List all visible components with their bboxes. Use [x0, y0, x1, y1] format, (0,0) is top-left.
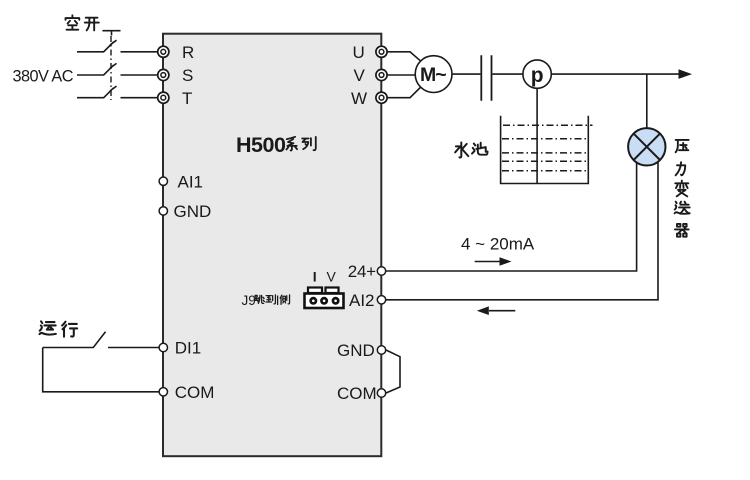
- terminal DI1: [159, 339, 201, 358]
- svg-text:R: R: [182, 43, 194, 62]
- svg-text:4 ~ 20mA: 4 ~ 20mA: [461, 235, 535, 254]
- svg-text:COM: COM: [337, 384, 377, 403]
- svg-text:W: W: [351, 89, 367, 108]
- svg-text:V: V: [354, 66, 366, 85]
- wire U to motor: [387, 52, 421, 61]
- terminal COM (right): [337, 384, 386, 403]
- wire transmitter right leg to AI2: [386, 162, 658, 300]
- svg-text:J9: J9: [242, 293, 256, 308]
- jumper cap V: [326, 288, 339, 294]
- wire gauge P down to tank: [536, 88, 538, 183]
- jumper cap I: [308, 288, 322, 294]
- terminal AI2: [349, 291, 386, 310]
- svg-text:GND: GND: [174, 202, 212, 221]
- terminal R: [158, 43, 195, 62]
- breaker pole 2 (S): [77, 63, 158, 75]
- label 水池: [455, 142, 487, 157]
- svg-text:I: I: [276, 293, 280, 308]
- breaker QF top bar: [102, 31, 120, 36]
- main pipe line: [551, 73, 680, 75]
- svg-text:M~: M~: [420, 64, 446, 86]
- run switch S1: [43, 332, 159, 348]
- wire V to motor: [387, 74, 415, 76]
- terminal 24+: [348, 262, 386, 281]
- breaker QF linkage (dash-dot): [110, 36, 112, 100]
- wire motor to coupling: [452, 73, 480, 75]
- terminal AI1: [159, 173, 203, 192]
- pressure gauge P1 (p): [523, 60, 551, 88]
- wire GND-COM bracket (right): [386, 350, 400, 393]
- inverter box U1 (H500 series drive): [163, 34, 381, 457]
- svg-text:T: T: [182, 89, 192, 108]
- wire W to motor: [387, 87, 421, 98]
- wire junction to transmitter: [646, 74, 648, 128]
- svg-text:V: V: [327, 269, 337, 285]
- svg-text:p: p: [531, 64, 544, 87]
- terminal S: [158, 66, 194, 85]
- svg-text:AI2: AI2: [349, 291, 375, 310]
- pipe coupling (capacitor-style symbol): [481, 55, 491, 101]
- terminal U: [353, 43, 388, 62]
- svg-text:DI1: DI1: [175, 339, 201, 358]
- svg-text:24+: 24+: [348, 262, 376, 281]
- label 运行 (run): [40, 321, 78, 336]
- label J9跳到I侧: [242, 293, 290, 308]
- wire transmitter left leg to 24+: [386, 162, 637, 271]
- breaker pole 3 (T): [77, 86, 158, 98]
- wire coupling to gauge P: [492, 73, 523, 75]
- terminal W: [351, 89, 387, 108]
- svg-text:I: I: [313, 269, 317, 285]
- svg-text:S: S: [182, 66, 193, 85]
- signal arrow right (24+ direction): [475, 257, 512, 266]
- terminal GND (left): [159, 202, 211, 221]
- terminal V: [354, 66, 388, 85]
- svg-text:COM: COM: [175, 383, 215, 402]
- signal arrow left (AI2 direction): [477, 306, 516, 315]
- svg-text:AI1: AI1: [178, 173, 204, 192]
- svg-text:GND: GND: [337, 341, 375, 360]
- wire DI1 return loop to COM: [43, 348, 159, 392]
- svg-text:U: U: [353, 43, 365, 62]
- water tank 水池: [500, 116, 593, 184]
- terminal T: [158, 89, 193, 108]
- jumper J9 block: [305, 294, 344, 309]
- terminal COM (left): [159, 383, 214, 402]
- flow arrow right: [679, 69, 693, 79]
- motor M1 (M~): [415, 56, 452, 93]
- breaker pole 1 (R): [77, 40, 158, 52]
- label H500系列: [236, 133, 316, 157]
- svg-text:380V AC: 380V AC: [13, 68, 74, 86]
- svg-text:H500: H500: [236, 133, 286, 157]
- label 压力变送器 (vertical): [675, 140, 690, 237]
- pressure transmitter PT1: [628, 128, 665, 165]
- label 空开 (breaker): [66, 15, 99, 30]
- terminal GND (right): [337, 341, 386, 360]
